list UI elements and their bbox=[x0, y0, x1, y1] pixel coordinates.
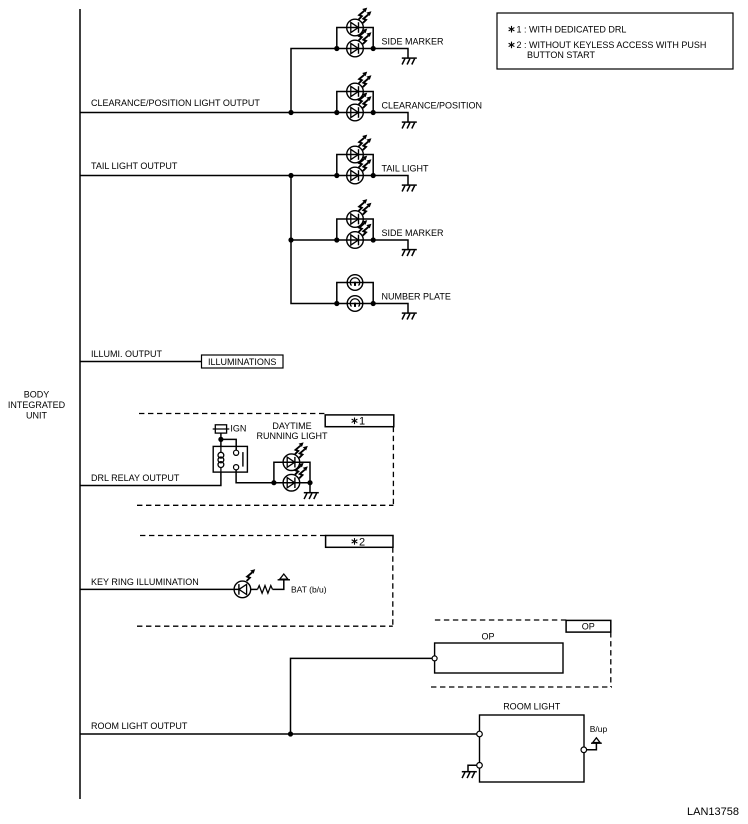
power tap: BAT bbox=[278, 574, 290, 580]
svg-text:INTEGRATED: INTEGRATED bbox=[8, 400, 66, 410]
LED lamp (upper) CLEARANCE/POSITION bbox=[347, 72, 372, 100]
LED lamp (lower) TAIL LIGHT bbox=[347, 156, 372, 184]
ground bbox=[304, 493, 319, 499]
wire: lamp main line bbox=[337, 48, 373, 50]
wire: IGN junction to relay contact bbox=[221, 439, 236, 450]
junction (left) bbox=[334, 173, 339, 178]
wire: parallel-lamp loop at y=48.5 bbox=[337, 28, 373, 49]
LED lamp (upper) daytime running light bbox=[283, 442, 308, 470]
svg-text:ROOM LIGHT OUTPUT: ROOM LIGHT OUTPUT bbox=[91, 721, 188, 731]
junction (right) bbox=[371, 301, 376, 306]
ground bbox=[402, 185, 417, 191]
svg-text:SIDE MARKER: SIDE MARKER bbox=[382, 228, 445, 238]
wire: DRL lamp loop bbox=[274, 462, 310, 483]
wire: room light to B/up tap bbox=[587, 743, 597, 750]
wire: CLEARANCE/POSITION LIGHT OUTPUT bbox=[80, 112, 337, 114]
terminal: OP unit bbox=[432, 656, 437, 661]
ground bbox=[402, 58, 417, 64]
svg-text:TAIL LIGHT OUTPUT: TAIL LIGHT OUTPUT bbox=[91, 161, 178, 171]
wire: IGN to relay bbox=[220, 433, 222, 446]
wire: parallel-lamp loop at y=240 bbox=[337, 219, 373, 240]
option box *1 (dashed) bbox=[137, 414, 393, 506]
svg-text:2 : WITHOUT KEYLESS ACCESS WIT: 2 : WITHOUT KEYLESS ACCESS WITH PUSH bbox=[517, 40, 707, 50]
svg-text:B/up: B/up bbox=[590, 724, 608, 734]
svg-text:DRL RELAY OUTPUT: DRL RELAY OUTPUT bbox=[91, 473, 180, 483]
wire to ground bbox=[373, 49, 408, 58]
wire: KEY RING ILLUMINATION bbox=[80, 588, 239, 590]
wire: lamp main line bbox=[337, 303, 373, 305]
relay switch blade bbox=[242, 452, 244, 467]
wire: parallel-lamp loop at y=175.5 bbox=[337, 155, 373, 176]
svg-text:BODY: BODY bbox=[24, 389, 50, 399]
relay contact (lower) bbox=[234, 465, 239, 470]
svg-text:DAYTIME: DAYTIME bbox=[272, 421, 311, 431]
LED lamp (lower) SIDE MARKER bbox=[347, 29, 372, 57]
note *1 line bbox=[509, 25, 627, 35]
svg-text:OP: OP bbox=[481, 632, 494, 642]
junction (right) bbox=[371, 237, 376, 242]
wire: ROOM LIGHT OUTPUT bbox=[80, 733, 477, 735]
svg-text:NUMBER PLATE: NUMBER PLATE bbox=[382, 291, 451, 301]
wire: lamp main line bbox=[337, 239, 373, 241]
tag box OP bbox=[566, 620, 611, 632]
bulb (lower) NUMBER PLATE bbox=[347, 296, 363, 312]
note *2 line bbox=[509, 40, 707, 60]
label: DAYTIME RUNNING LIGHT bbox=[256, 421, 328, 441]
svg-text:1: 1 bbox=[359, 416, 365, 428]
block: ILLUMINATIONS bbox=[202, 355, 284, 368]
wire: TAIL LIGHT OUTPUT bbox=[80, 175, 337, 177]
note box: *1/*2 legend bbox=[497, 13, 733, 69]
wire to ground bbox=[373, 113, 408, 122]
svg-text:BUTTON START: BUTTON START bbox=[527, 50, 596, 60]
svg-text:SIDE MARKER: SIDE MARKER bbox=[382, 36, 445, 46]
wire: LED to resistor bbox=[251, 588, 258, 590]
wire: OP unit to room light line bbox=[291, 658, 433, 734]
relay: DRL relay box bbox=[213, 446, 247, 472]
svg-text:CLEARANCE/POSITION LIGHT OUTPU: CLEARANCE/POSITION LIGHT OUTPUT bbox=[91, 98, 260, 108]
bulb (upper) NUMBER PLATE bbox=[347, 275, 363, 291]
junction (right) bbox=[307, 480, 312, 485]
svg-text:KEY RING ILLUMINATION: KEY RING ILLUMINATION bbox=[91, 577, 199, 587]
junction under IGN bbox=[218, 437, 223, 442]
wire: DRL RELAY OUTPUT bbox=[80, 472, 221, 485]
relay coil bbox=[218, 446, 224, 472]
svg-text:1 : WITH DEDICATED DRL: 1 : WITH DEDICATED DRL bbox=[517, 25, 627, 35]
svg-text:UNIT: UNIT bbox=[26, 410, 47, 420]
wire: branch down from tail line to side marker / number plate bbox=[291, 176, 337, 304]
connector: IGN bbox=[213, 425, 230, 433]
junction on room light line bbox=[288, 731, 293, 736]
LED lamp (lower) daytime running light bbox=[283, 463, 308, 491]
wire: relay to DRL lamps bbox=[236, 470, 274, 483]
wire to ground bbox=[373, 304, 408, 313]
option box *2 (dashed) bbox=[137, 536, 393, 627]
junction (left) bbox=[334, 237, 339, 242]
terminal: ground side bbox=[477, 763, 483, 769]
wire: DRL lamp main bbox=[274, 482, 310, 484]
junction (right) bbox=[371, 173, 376, 178]
block: OP unit bbox=[435, 643, 563, 673]
LED lamp (lower) CLEARANCE/POSITION bbox=[347, 93, 372, 121]
wire: lamp main line bbox=[337, 112, 373, 114]
wire: lamp main line bbox=[337, 175, 373, 177]
svg-text:IGN: IGN bbox=[230, 423, 246, 433]
svg-text:OP: OP bbox=[582, 622, 595, 632]
junction (left) bbox=[334, 110, 339, 115]
junction (right) bbox=[371, 110, 376, 115]
junction (right) bbox=[371, 46, 376, 51]
block: ROOM LIGHT bbox=[480, 715, 585, 782]
wire: parallel-lamp loop at y=112.5 bbox=[337, 92, 373, 113]
resistor bbox=[258, 586, 273, 594]
LED lamp (lower) SIDE MARKER bbox=[347, 220, 372, 248]
node: BODY INTEGRATED UNIT output bus bbox=[79, 9, 81, 799]
svg-text:ILLUMI. OUTPUT: ILLUMI. OUTPUT bbox=[91, 349, 163, 359]
wire: branch up from clearance line to side marker bbox=[291, 49, 337, 113]
junction (left) bbox=[334, 46, 339, 51]
ground bbox=[402, 122, 417, 128]
ground bbox=[402, 250, 417, 256]
svg-text:CLEARANCE/POSITION: CLEARANCE/POSITION bbox=[382, 100, 483, 110]
wire: side marker (rear) feed bbox=[291, 239, 337, 241]
relay contact (upper) bbox=[234, 450, 239, 455]
LED lamp (upper) SIDE MARKER bbox=[347, 8, 372, 36]
option box OP (dashed) bbox=[431, 620, 612, 687]
wire: room light to ground bbox=[468, 765, 477, 771]
terminal: feed bbox=[477, 731, 483, 737]
svg-text:ILLUMINATIONS: ILLUMINATIONS bbox=[208, 357, 276, 367]
wire: ILLUMI. OUTPUT bbox=[80, 361, 202, 363]
junction on tail light line bbox=[288, 173, 293, 178]
tag box *2 bbox=[326, 536, 393, 549]
label: BODY INTEGRATED UNIT bbox=[8, 389, 66, 420]
power tap: B/up bbox=[591, 738, 602, 743]
junction (left) bbox=[334, 301, 339, 306]
wire: resistor to BAT tap bbox=[273, 580, 284, 590]
tag box *1 bbox=[325, 415, 394, 428]
wire to ground bbox=[373, 240, 408, 249]
junction on branch bbox=[288, 237, 293, 242]
ground bbox=[462, 772, 477, 778]
junction on clearance line bbox=[288, 110, 293, 115]
svg-text:2: 2 bbox=[359, 536, 365, 548]
LED lamp (upper) TAIL LIGHT bbox=[347, 135, 372, 163]
ground bbox=[402, 313, 417, 319]
wire to ground bbox=[373, 176, 408, 185]
svg-text:LAN13758: LAN13758 bbox=[687, 806, 739, 818]
wire: parallel-lamp loop at y=303.5 bbox=[337, 283, 373, 304]
wire to ground bbox=[309, 483, 311, 493]
svg-text:ROOM LIGHT: ROOM LIGHT bbox=[503, 702, 561, 712]
svg-text:BAT (b/u): BAT (b/u) bbox=[291, 585, 327, 595]
LED: key ring illumination bbox=[234, 569, 255, 598]
junction (left) bbox=[271, 480, 276, 485]
terminal: B/up side bbox=[581, 747, 587, 753]
LED lamp (upper) SIDE MARKER bbox=[347, 199, 372, 227]
svg-text:RUNNING LIGHT: RUNNING LIGHT bbox=[256, 431, 328, 441]
svg-text:TAIL LIGHT: TAIL LIGHT bbox=[382, 163, 430, 173]
